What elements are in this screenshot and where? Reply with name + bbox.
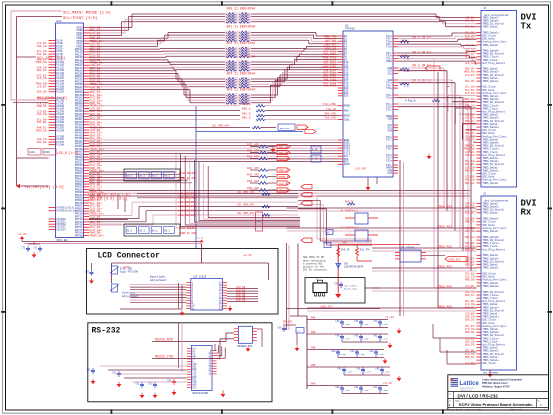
svg-text:C50: C50: [86, 368, 91, 371]
svg-text:3R4_47K: 3R4_47K: [324, 113, 336, 116]
svg-text:PWR_D7-: PWR_D7-: [465, 169, 476, 172]
svg-text:LCD_D5: LCD_D5: [236, 299, 246, 302]
svg-text:+12V0: +12V0: [122, 266, 130, 269]
svg-text:LCD_DB[07]: LCD_DB[07]: [178, 191, 196, 195]
svg-text:0.1uF: 0.1uF: [343, 389, 350, 392]
svg-text:PWR: PWR: [311, 346, 316, 349]
svg-text:R30 47K: R30 47K: [247, 149, 259, 152]
svg-text:C80: C80: [334, 282, 339, 285]
svg-text:VGA_C2+: VGA_C2+: [37, 45, 48, 48]
svg-text:0.1uF: 0.1uF: [343, 323, 350, 326]
svg-text:Rv: Rv: [538, 401, 540, 403]
svg-text:R6C_D: R6C_D: [242, 113, 251, 116]
svg-text:SDA_MAIN [1:0]: SDA_MAIN [1:0]: [37, 96, 67, 101]
svg-text:OSC: OSC: [257, 220, 262, 223]
svg-text:+3.3V: +3.3V: [243, 254, 252, 257]
svg-text:VGA_C0+: VGA_C0+: [279, 190, 290, 193]
svg-text:4.7K: 4.7K: [312, 158, 318, 161]
svg-text:68.1: 68.1: [139, 230, 145, 233]
svg-text:3.3K: 3.3K: [404, 58, 410, 61]
svg-text:ECP2 Video Protocol Board Sche: ECP2 Video Protocol Board Schematic: [459, 402, 533, 407]
svg-text:6R1 11 EB9+2RxA: 6R1 11 EB9+2RxA: [227, 25, 256, 29]
svg-text:PR79B: PR79B: [75, 234, 83, 237]
svg-text:VCC: VCC: [192, 386, 197, 389]
svg-text:PWR_D3-: PWR_D3-: [465, 279, 476, 282]
svg-text:SDA_D1-: SDA_D1-: [465, 236, 476, 239]
svg-text:TERM 68 OHM: TERM 68 OHM: [179, 232, 197, 235]
svg-text:R31 47K: R31 47K: [247, 155, 259, 158]
svg-text:2R 2.2K E1: 2R 2.2K E1: [412, 63, 431, 67]
svg-text:PWR_D9-: PWR_D9-: [465, 331, 476, 334]
svg-text:C52: C52: [135, 382, 140, 385]
svg-text:TMDS_RX5: TMDS_RX5: [438, 305, 453, 308]
svg-text:GND: GND: [388, 118, 393, 121]
svg-text:Ti: Ti: [449, 394, 451, 396]
svg-text:R10 1K: R10 1K: [341, 249, 350, 252]
svg-text:PWR_D7-: PWR_D7-: [279, 170, 290, 173]
svg-text:Hot_Plug_Detect: Hot_Plug_Detect: [483, 248, 506, 251]
svg-text:LCD_B7-: LCD_B7-: [37, 85, 48, 88]
svg-text:LCD_DB[05]: LCD_DB[05]: [178, 200, 196, 204]
svg-text:TxD_LVPE: TxD_LVPE: [323, 103, 337, 106]
svg-text:0.1uF: 0.1uF: [381, 338, 388, 341]
svg-text:SDA_D1-: SDA_D1-: [465, 182, 476, 185]
svg-text:LCD_DB[03]: LCD_DB[03]: [178, 209, 196, 213]
svg-text:+5V: +5V: [342, 242, 347, 245]
svg-text:R.Pkg_Ex: R.Pkg_Ex: [405, 100, 417, 103]
svg-text:TMDS_Data1+: TMDS_Data1+: [483, 267, 500, 270]
svg-text:TMDS_RX3: TMDS_RX3: [438, 265, 453, 268]
svg-text:0.1uF: 0.1uF: [343, 338, 350, 341]
svg-text:LCD_B5-: LCD_B5-: [465, 285, 476, 288]
svg-text:SDA: SDA: [388, 129, 393, 132]
svg-text:SDA_D9-: SDA_D9-: [465, 80, 476, 83]
svg-text:LCD_B9-: LCD_B9-: [465, 44, 476, 47]
svg-text:C41: C41: [354, 334, 359, 337]
svg-text:LCD OUT: LCD OUT: [355, 167, 367, 170]
svg-text:HEADER 5X2: HEADER 5X2: [237, 345, 253, 348]
svg-text:LED/BATON_BNTH: LED/BATON_BNTH: [344, 266, 364, 269]
svg-text:FB_3V3: FB_3V3: [283, 321, 293, 324]
svg-text:C42: C42: [373, 334, 378, 337]
svg-text:J5: J5: [483, 193, 487, 196]
svg-text:PD#: PD#: [344, 110, 349, 113]
svg-text:C60: C60: [277, 326, 282, 329]
svg-text:PWR_D3-: PWR_D3-: [37, 105, 48, 108]
svg-text:SDA_D1-: SDA_D1-: [37, 69, 48, 72]
svg-text:FPGA SERIES: FPGA SERIES: [179, 172, 197, 175]
svg-text:C40: C40: [331, 350, 336, 353]
svg-text:LCD_CTL[3:0] [3:0]: LCD_CTL[3:0] [3:0]: [88, 197, 128, 202]
svg-text:0.1uF: 0.1uF: [383, 371, 390, 374]
svg-text:TX2+: TX2+: [386, 159, 393, 162]
svg-text:0.1uF: 0.1uF: [381, 389, 388, 392]
svg-text:TX1+: TX1+: [386, 97, 393, 100]
svg-text:CLK_C2+: CLK_C2+: [465, 92, 476, 95]
svg-text:SCL_AUX [3:0]: SCL_AUX [3:0]: [37, 56, 65, 61]
svg-text:R34 47K: R34 47K: [247, 180, 259, 183]
svg-text:SDA_D5-: SDA_D5-: [465, 319, 476, 322]
svg-text:+1.2V: +1.2V: [385, 316, 394, 319]
svg-text:+5V0_JTV: +5V0_JTV: [320, 305, 333, 308]
svg-text:TMDS_RX2: TMDS_RX2: [438, 245, 453, 248]
svg-text:TMDS_A2+: TMDS_A2+: [463, 123, 476, 126]
svg-text:PWR_D7-: PWR_D7-: [465, 356, 476, 359]
svg-text:SDA_D5-: SDA_D5-: [37, 141, 48, 144]
svg-text:DVI / LCD / RS-232: DVI / LCD / RS-232: [458, 393, 499, 398]
svg-text:J4: J4: [483, 7, 487, 10]
svg-text:3.3K: 3.3K: [404, 85, 410, 88]
svg-text:R35 47K: R35 47K: [247, 187, 259, 190]
svg-text:C41: C41: [350, 350, 355, 353]
svg-text:LCD_DB[02]: LCD_DB[02]: [178, 213, 196, 217]
svg-text:68.1: 68.1: [164, 175, 170, 178]
svg-text:LCD_DB[06]: LCD_DB[06]: [178, 196, 196, 200]
svg-text:TX0+: TX0+: [386, 87, 393, 90]
svg-text:DVI_B7-: DVI_B7-: [465, 138, 476, 141]
svg-text:PWR: PWR: [311, 316, 316, 319]
svg-text:5R0 11 EB9+2RxA: 5R0 11 EB9+2RxA: [227, 7, 256, 11]
svg-text:SCL_MAIN/_MOUSE [1:0]: SCL_MAIN/_MOUSE [1:0]: [63, 10, 111, 15]
svg-text:VCC: VCC: [388, 172, 393, 175]
svg-text:MAX3232IPW: MAX3232IPW: [193, 392, 209, 395]
svg-text:TMDS_Data0-: TMDS_Data0-: [483, 44, 500, 47]
svg-text:C72: C72: [33, 246, 38, 249]
svg-text:U5 LP3985: U5 LP3985: [401, 247, 415, 250]
svg-text:R29 47K: R29 47K: [247, 143, 259, 146]
svg-text:SDA_D9-: SDA_D9-: [465, 264, 476, 267]
svg-text:R6B_D: R6B_D: [242, 103, 251, 106]
svg-text:VGA_TX23: VGA_TX23: [324, 84, 337, 87]
svg-text:TERM 68 OHM: TERM 68 OHM: [179, 177, 197, 180]
svg-text:SDA_D7-: SDA_D7-: [465, 107, 476, 110]
svg-text:+3.3V: +3.3V: [18, 233, 27, 236]
svg-text:ISEL: ISEL: [344, 118, 351, 121]
svg-text:SDA_D3-: SDA_D3-: [465, 344, 476, 347]
svg-text:PWR_D7-: PWR_D7-: [465, 38, 476, 41]
svg-text:D23: D23: [344, 95, 349, 98]
svg-text:LED_G [1:0]: LED_G [1:0]: [57, 151, 79, 155]
svg-text:0.1uF: 0.1uF: [362, 323, 369, 326]
svg-text:C71: C71: [21, 246, 26, 249]
svg-text:TMDS_Data1-: TMDS_Data1-: [483, 212, 500, 215]
svg-text:PWR_D7-: PWR_D7-: [465, 221, 476, 224]
svg-text:RS232_TXD: RS232_TXD: [155, 354, 173, 358]
svg-text:TX1+: TX1+: [386, 46, 393, 49]
svg-text:Rx: Rx: [521, 208, 532, 218]
svg-text:C6L R5M_47K: C6L R5M_47K: [237, 212, 255, 215]
svg-text:LCD_B9-: LCD_B9-: [279, 183, 290, 186]
svg-text:CLK_C4+: CLK_C4+: [37, 77, 48, 80]
svg-text:+5V0_DVI: +5V0_DVI: [448, 259, 461, 262]
svg-text:IDCK: IDCK: [344, 163, 351, 166]
svg-text:U1A: U1A: [57, 20, 62, 23]
svg-text:VGA_C2+: VGA_C2+: [465, 20, 476, 23]
svg-text:Sheet 1 of 1: Sheet 1 of 1: [510, 408, 524, 411]
svg-text:TMDS_Data0-: TMDS_Data0-: [483, 182, 500, 185]
svg-text:SCL_A4+: SCL_A4+: [465, 26, 476, 29]
svg-text:2R4 11 EB9+2RxA: 2R4 11 EB9+2RxA: [227, 72, 256, 76]
svg-text:C42: C42: [375, 367, 380, 370]
svg-text:TMDS_A8+: TMDS_A8+: [35, 61, 48, 64]
svg-text:C42: C42: [373, 386, 378, 389]
svg-text:LCD_DB[04]: LCD_DB[04]: [178, 204, 196, 208]
svg-text:TX2-: TX2-: [386, 108, 393, 111]
svg-text:Adjustment: Adjustment: [150, 278, 167, 282]
svg-text:TMDS_Data0-: TMDS_Data0-: [483, 230, 500, 233]
svg-text:Sz: Sz: [449, 401, 451, 403]
svg-text:DVI_B5-: DVI_B5-: [279, 152, 290, 155]
svg-text:MSEN: MSEN: [344, 105, 351, 108]
svg-text:TMDS_Data1-: TMDS_Data1-: [483, 26, 500, 29]
svg-text:RS232_RXD: RS232_RXD: [155, 337, 173, 341]
svg-text:Lattice: Lattice: [460, 381, 480, 387]
svg-text:C09: C09: [85, 270, 90, 273]
svg-text:SCL_A2+: SCL_A2+: [465, 56, 476, 59]
svg-text:0.1uF: 0.1uF: [381, 323, 388, 326]
svg-text:DVI_B9-: DVI_B9-: [37, 121, 48, 124]
svg-text:+3.3V: +3.3V: [197, 236, 204, 239]
svg-text:C6L R5M_47K: C6L R5M_47K: [212, 125, 230, 128]
svg-text:J10 LCD16: J10 LCD16: [193, 275, 207, 278]
svg-text:DDC_Clock: DDC_Clock: [483, 362, 497, 365]
svg-text:0.1uF: 0.1uF: [362, 389, 369, 392]
svg-text:LCD_B7-: LCD_B7-: [465, 74, 476, 77]
svg-text:DVI Rx connector.: DVI Rx connector.: [303, 269, 329, 272]
svg-text:TMDS_Data1+: TMDS_Data1+: [483, 80, 500, 83]
svg-text:68.1: 68.1: [139, 175, 145, 178]
svg-text:Date: Friday, March 10, 2006: Date: Friday, March 10, 2006: [449, 408, 482, 411]
svg-text:R6E_D: R6E_D: [242, 117, 251, 120]
svg-text:R32 47K: R32 47K: [247, 167, 259, 170]
svg-text:CLK_C6+: CLK_C6+: [279, 158, 290, 161]
svg-text:SCL/TPINT [3:0]: SCL/TPINT [3:0]: [63, 16, 97, 21]
svg-text:LED1: LED1: [29, 151, 35, 154]
svg-text:0.1uF: 0.1uF: [362, 338, 369, 341]
svg-text:Corporation: Corporation: [460, 389, 472, 391]
svg-text:SCL: SCL: [388, 72, 393, 75]
svg-text:TMDS_A2+: TMDS_A2+: [35, 129, 48, 132]
svg-text:DVI_B5-: DVI_B5-: [465, 212, 476, 215]
svg-text:SDA_D9-: SDA_D9-: [37, 91, 48, 94]
svg-text:LCD Connector: LCD Connector: [98, 252, 161, 261]
svg-text:VGA_C6+: VGA_C6+: [37, 113, 48, 116]
svg-text:C6L R5M_47K: C6L R5M_47K: [237, 191, 255, 194]
svg-text:TX0-: TX0-: [386, 148, 393, 151]
svg-text:TMDS_RX0: TMDS_RX0: [438, 205, 453, 208]
svg-text:68.1: 68.1: [152, 175, 158, 178]
svg-text:C40: C40: [337, 367, 342, 370]
svg-text:TMDS_Data0+: TMDS_Data0+: [483, 285, 500, 288]
svg-text:C6L R5M_47K: C6L R5M_47K: [237, 204, 255, 207]
svg-text:LCD_B9-: LCD_B9-: [465, 362, 476, 365]
svg-text:R11 47K: R11 47K: [360, 249, 370, 252]
svg-text:TXC-: TXC-: [386, 139, 393, 142]
svg-text:R6R_DNs: R6R_DNs: [280, 127, 290, 130]
svg-text:J6 434EF16-6: J6 434EF16-6: [340, 210, 359, 213]
svg-text:VREF: VREF: [386, 60, 393, 63]
svg-text:R100: R100: [44, 151, 50, 154]
svg-text:0.1uF: 0.1uF: [364, 371, 371, 374]
svg-text:TMDS_RX1: TMDS_RX1: [438, 225, 453, 228]
svg-text:+3.3V: +3.3V: [383, 382, 392, 385]
svg-text:0.1uF: 0.1uF: [358, 353, 365, 356]
svg-text:68.1: 68.1: [127, 175, 133, 178]
svg-text:Digi 470/50K: Digi 470/50K: [120, 271, 139, 274]
svg-text:68.1: 68.1: [127, 230, 133, 233]
svg-text:TxD_CKE: TxD_CKE: [324, 117, 336, 120]
svg-text:C41: C41: [354, 320, 359, 323]
svg-text:TFP410: TFP410: [345, 28, 355, 31]
svg-text:PWR: PWR: [311, 364, 316, 367]
svg-text:PL21D: PL21D: [56, 91, 64, 94]
svg-text:VGA_C2+: VGA_C2+: [465, 154, 476, 157]
svg-text:R33 47K: R33 47K: [247, 173, 259, 176]
svg-text:CLK_C4+: CLK_C4+: [465, 62, 476, 65]
svg-text:ATTGND(LVLA_U): ATTGND(LVLA_U): [56, 210, 75, 213]
svg-text:C40: C40: [335, 334, 340, 337]
svg-text:PL34A: PL34A: [56, 129, 64, 132]
svg-text:C42: C42: [369, 350, 374, 353]
svg-text:VGA_C0+: VGA_C0+: [465, 230, 476, 233]
svg-text:C53: C53: [148, 382, 153, 385]
svg-text:C41: C41: [356, 367, 361, 370]
svg-text:0.1uF: 0.1uF: [339, 353, 346, 356]
svg-text:BLK56-256L: BLK56-256L: [344, 288, 358, 291]
svg-text:TMDS_A8: TMDS_A8: [279, 176, 290, 179]
svg-text:4.7K: 4.7K: [312, 149, 318, 152]
svg-text:68.1: 68.1: [164, 230, 170, 233]
svg-text:FPGA SERIES: FPGA SERIES: [179, 227, 197, 230]
svg-text:R6D_D: R6D_D: [242, 108, 251, 111]
svg-text:Tx: Tx: [521, 22, 532, 32]
svg-text:VCCIO4: VCCIO4: [56, 228, 66, 231]
svg-text:68.1: 68.1: [152, 230, 158, 233]
svg-text:SCL_A4+: SCL_A4+: [279, 146, 290, 149]
svg-text:0.1uF: 0.1uF: [345, 371, 352, 374]
svg-text:Hillsboro, Oregon 97124: Hillsboro, Oregon 97124: [482, 385, 510, 388]
svg-text:RS-232: RS-232: [92, 327, 121, 336]
svg-text:TMDS_A0+: TMDS_A0+: [90, 234, 105, 237]
svg-text:TxD_LM: TxD_LM: [326, 108, 336, 111]
svg-text:TMDS_RX4: TMDS_RX4: [438, 285, 453, 288]
svg-text:PWR: PWR: [311, 331, 316, 334]
svg-text:PL38A: PL38A: [56, 144, 64, 147]
svg-text:C42: C42: [373, 320, 378, 323]
svg-text:C41: C41: [354, 386, 359, 389]
svg-text:EDGE: EDGE: [344, 114, 351, 117]
svg-text:DVI_B5-: DVI_B5-: [37, 53, 48, 56]
svg-text:J7 434EF16-6: J7 434EF16-6: [340, 227, 359, 230]
svg-text:Hot_Plug_Detect: Hot_Plug_Detect: [483, 62, 506, 65]
svg-text:0.1uF: 0.1uF: [377, 353, 384, 356]
svg-text:C40: C40: [335, 386, 340, 389]
svg-text:C40: C40: [335, 320, 340, 323]
svg-text:SDA_D7-: SDA_D7-: [465, 294, 476, 297]
svg-text:PWR: PWR: [311, 382, 316, 385]
